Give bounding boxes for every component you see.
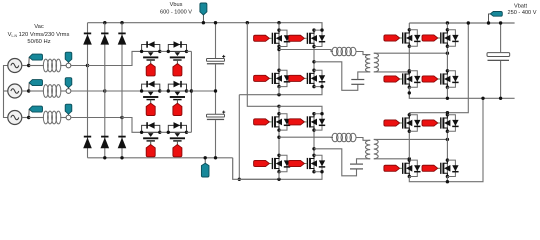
wire upper secondary bottom <box>374 71 410 73</box>
MOSFET lower bridge Q8 <box>305 154 326 174</box>
AC source phase A <box>8 59 22 73</box>
MOSFET secondary upper Q9 <box>400 28 421 48</box>
diode bottom column 1 <box>83 137 92 149</box>
test point phase A <box>66 63 71 68</box>
gate drive secondary Q14 <box>422 120 438 126</box>
wire upper bridge return <box>238 95 240 180</box>
label Vbus <box>160 2 192 15</box>
MOSFET upper bridge Q1 <box>270 28 291 48</box>
AC source phase C <box>8 111 22 125</box>
wire output cap bottom <box>500 61 502 98</box>
node probe Vbatt rail <box>487 21 490 24</box>
gate drive secondary Q10 <box>422 35 438 41</box>
svg-text:Vbatt: Vbatt <box>514 3 528 9</box>
wire lower secondary right leg to rail <box>446 177 448 182</box>
wire phase A source to node <box>22 65 29 67</box>
svg-text:250 - 400 V: 250 - 400 V <box>508 10 537 16</box>
wire lower cap to transformer <box>357 159 371 165</box>
gate drive row 2 left <box>146 103 155 115</box>
capacitor output <box>487 53 510 61</box>
MOSFET lower bridge Q7 <box>270 154 291 174</box>
AC source phase B <box>8 84 22 98</box>
wire phase B to switch row 2 <box>105 90 142 92</box>
probe Vbatt <box>489 12 503 24</box>
MOSFET secondary upper Q11 <box>400 69 421 89</box>
wire midpoint column <box>190 51 192 132</box>
gate drive secondary Q13 <box>384 120 400 126</box>
svg-text:50/60 Hz: 50/60 Hz <box>27 39 50 45</box>
transformer lower primary <box>366 140 371 158</box>
wire row 3 middle <box>160 131 169 133</box>
voltage probe phase A <box>65 52 72 63</box>
wire row 2 to midpoint column <box>187 90 192 92</box>
wire midpoint to bus <box>191 90 215 92</box>
node lower secondary rail right leg <box>446 180 449 183</box>
node phase B column 2 <box>103 89 106 92</box>
node upper tank tap B <box>312 60 315 63</box>
node phase C column 3 <box>120 116 123 119</box>
wire upper secondary right leg <box>446 23 448 87</box>
node bus top <box>214 21 217 24</box>
wire phase A to switch row 1 <box>88 51 142 65</box>
node probe bottom rail <box>204 156 207 159</box>
wire upper tank tap A <box>279 50 333 52</box>
MOSFET switch row 2 left <box>140 81 162 103</box>
wire upper secondary left leg <box>408 23 410 87</box>
wire phase B source to node <box>22 90 29 92</box>
boost inductor phase B <box>43 85 61 98</box>
node phase B <box>27 89 30 92</box>
node lower secondary top right <box>446 111 449 114</box>
wire bridge column 2 <box>104 23 106 158</box>
voltage probe phase C <box>65 104 72 115</box>
gate drive lower Q8 <box>289 160 305 166</box>
wire upper left leg to rail <box>278 87 280 95</box>
node upper secondary bottom <box>408 70 411 73</box>
wire lower bridge left leg <box>278 106 280 171</box>
gate drive row 2 right <box>173 103 182 115</box>
wire bus between caps <box>215 64 217 114</box>
label Vac input voltage <box>8 24 70 45</box>
probe Vbus bottom <box>201 158 209 177</box>
svg-text:600 - 1000 V: 600 - 1000 V <box>160 10 192 16</box>
MOSFET switch row 3 right <box>167 122 189 144</box>
node output bottom left leg <box>408 91 411 94</box>
node probe top rail <box>202 21 205 24</box>
current probe phase B <box>29 80 43 90</box>
wire row 1 middle <box>160 50 169 52</box>
node lower secondary return <box>481 97 484 100</box>
voltage probe phase B <box>65 78 72 89</box>
resonant inductor lower <box>332 133 356 142</box>
wire phase B to bridge <box>71 90 105 92</box>
wire lower secondary bottom rail <box>409 98 483 181</box>
resonant capacitor upper <box>351 80 364 85</box>
node lower bridge top left <box>277 105 280 108</box>
wire upper bridge bottom rail <box>239 28 323 94</box>
wire lower secondary bottom <box>374 158 410 160</box>
MOSFET secondary lower Q16 <box>438 158 459 178</box>
wire lower secondary top rail <box>409 23 468 113</box>
gate drive row 1 right <box>173 64 182 76</box>
wire lower tank tap B <box>314 149 357 176</box>
node top rail column 2 <box>103 21 106 24</box>
wire output bottom rail <box>409 87 514 98</box>
MOSFET switch row 3 left <box>140 122 162 144</box>
wire DC- jog to lower rail <box>233 158 279 180</box>
wire DC bus lower <box>215 120 217 158</box>
wire phase C node to inductor <box>29 117 44 119</box>
wire row 3 to midpoint column <box>187 131 192 133</box>
transformer upper secondary <box>374 53 379 72</box>
gate drive secondary Q16 <box>422 165 438 171</box>
node phase C <box>27 116 30 119</box>
MOSFET secondary lower Q15 <box>400 158 421 178</box>
wire lower bridge top rail <box>279 106 322 113</box>
gate drive lower Q5 <box>254 119 270 125</box>
MOSFET upper bridge Q3 <box>270 69 291 89</box>
wire top rail to lower bridge <box>247 23 279 107</box>
current probe phase C <box>29 106 43 116</box>
boost inductor phase C <box>43 111 61 124</box>
gate drive secondary Q9 <box>384 35 400 41</box>
gate drive upper Q2 <box>289 35 305 41</box>
node output cap top <box>499 21 502 24</box>
transformer lower secondary <box>374 139 378 158</box>
probe Vbus top <box>200 3 207 23</box>
node upper tank tap A <box>277 48 280 51</box>
node lower secondary top <box>446 138 449 141</box>
test point phase B <box>66 89 71 94</box>
node phase A column 1 <box>86 64 89 67</box>
wire output top rail <box>409 22 514 24</box>
test point phase C <box>66 115 71 120</box>
node lower secondary bottom <box>408 157 411 160</box>
wire row 2 middle <box>160 90 169 92</box>
wire row 1 to midpoint column <box>187 50 192 52</box>
node top rail to lower bridge <box>246 21 249 24</box>
wire phase B inductor to test point <box>60 90 66 92</box>
MOSFET lower bridge Q5 <box>270 112 291 132</box>
diode top column 1 <box>83 33 92 44</box>
wire phase C source to node <box>22 117 29 119</box>
node output bottom right leg <box>446 97 449 100</box>
wire output cap top <box>500 23 502 53</box>
wire lower secondary right leg <box>446 113 448 177</box>
gate drive secondary Q11 <box>384 76 400 82</box>
svg-text:Vac: Vac <box>34 24 44 30</box>
MOSFET lower bridge Q6 <box>305 112 326 132</box>
wire upper cap to transformer <box>358 72 370 80</box>
label Vbatt <box>508 3 537 16</box>
svg-text:Vbus: Vbus <box>170 2 183 8</box>
wire DC- bottom rail <box>88 157 233 159</box>
wire secondary right leg to rail <box>446 87 448 98</box>
wire DC+ top rail <box>88 23 323 30</box>
MOSFET upper bridge Q2 <box>305 28 326 48</box>
MOSFET secondary lower Q13 <box>400 113 421 133</box>
wire bridge column 1 <box>87 23 89 158</box>
wire phase A to bridge <box>71 65 88 67</box>
node lower tank tap A <box>277 136 280 139</box>
gate drive secondary Q15 <box>384 165 400 171</box>
transformer upper primary <box>365 55 370 72</box>
MOSFET switch row 1 left <box>140 41 162 63</box>
gate drive row 3 left <box>146 145 155 157</box>
MOSFET switch row 1 right <box>167 41 189 63</box>
node midpoint column <box>190 89 193 92</box>
wire phase A inductor to test point <box>60 65 66 67</box>
gate drive upper Q4 <box>289 75 305 81</box>
wire phase C inductor to test point <box>60 117 66 119</box>
MOSFET switch row 2 right <box>167 81 189 103</box>
wire phase C to bridge <box>71 117 122 119</box>
node upper bridge source left <box>277 93 280 96</box>
gate drive lower Q6 <box>289 119 305 125</box>
wire lower bridge right leg <box>313 114 315 172</box>
wire lower secondary left leg <box>408 113 410 177</box>
wire lower left leg to rail <box>278 172 280 180</box>
gate drive secondary Q12 <box>422 76 438 82</box>
MOSFET secondary upper Q12 <box>438 69 459 89</box>
diode top column 3 <box>118 33 127 44</box>
node upper bridge top left <box>277 21 280 24</box>
node bus bottom <box>214 156 217 159</box>
current probe phase A <box>29 54 43 64</box>
wire lower tank tap A <box>279 136 333 138</box>
node output rail right leg <box>446 21 449 24</box>
gate drive row 3 right <box>173 145 182 157</box>
wire upper tank tap B <box>314 62 358 91</box>
gate drive upper Q3 <box>254 75 270 81</box>
MOSFET upper bridge Q4 <box>305 69 326 89</box>
wire upper bridge right leg <box>313 30 315 87</box>
node upper secondary top <box>446 52 449 55</box>
svg-text:VL-N 120 Vrms/230 Vrms: VL-N 120 Vrms/230 Vrms <box>8 32 70 38</box>
wire phase B node to inductor <box>29 90 44 92</box>
node bottom rail column 3 <box>120 156 123 159</box>
gate drive row 1 left <box>146 64 155 76</box>
capacitor bus upper <box>207 55 226 65</box>
wire lower inductor to transformer <box>356 138 371 141</box>
capacitor bus lower <box>207 111 226 121</box>
wire DC bus upper <box>215 23 217 59</box>
node output cap bottom <box>499 97 502 100</box>
wire upper inductor to transformer <box>356 52 371 55</box>
node bottom rail column 2 <box>103 156 106 159</box>
node lower secondary feed <box>467 21 470 24</box>
wire lower bridge bottom rail <box>239 112 323 179</box>
wire upper secondary top <box>374 52 448 54</box>
node bus midpoint <box>214 89 217 92</box>
diode bottom column 2 <box>101 137 110 149</box>
node top rail column 3 <box>120 21 123 24</box>
wire phase A node to inductor <box>29 65 44 67</box>
gate drive upper Q1 <box>254 35 270 41</box>
wire phase C to switch row 3 <box>122 118 142 133</box>
node phase A <box>27 64 30 67</box>
node lower tank tap B <box>312 147 315 150</box>
MOSFET secondary upper Q10 <box>438 28 459 48</box>
wire neutral bus <box>4 66 8 118</box>
diode top column 2 <box>101 33 110 44</box>
wire lower secondary top <box>374 138 448 140</box>
node lower bridge source left <box>277 178 280 181</box>
MOSFET secondary lower Q14 <box>438 113 459 133</box>
diode bottom column 3 <box>118 137 127 149</box>
gate drive lower Q7 <box>254 160 270 166</box>
wire bridge column 3 <box>121 23 123 158</box>
resonant capacitor lower <box>350 164 363 169</box>
node lower bridge return <box>238 178 241 181</box>
boost inductor phase A <box>43 59 61 72</box>
wire upper bridge left leg <box>278 23 280 87</box>
resonant inductor upper <box>332 47 356 56</box>
